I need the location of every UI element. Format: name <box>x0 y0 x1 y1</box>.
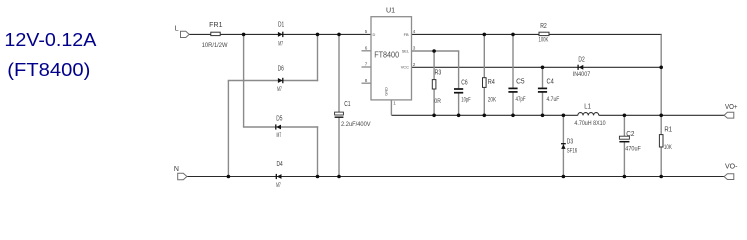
svg-text:R2: R2 <box>540 23 547 30</box>
svg-text:U1: U1 <box>386 5 395 14</box>
svg-text:10pF: 10pF <box>461 97 470 104</box>
svg-text:N: N <box>174 166 179 173</box>
junction VCC at right column <box>659 66 663 70</box>
junction GND rail at C4 <box>541 114 545 118</box>
pin 6 stub <box>362 50 372 52</box>
junction top rail at C1 <box>337 33 341 37</box>
junction output rail at R1 <box>659 114 663 118</box>
junction bottom rail at D5 right <box>316 175 320 179</box>
svg-text:M7: M7 <box>278 40 283 47</box>
wire bottom rail N-to-VO- <box>187 176 724 178</box>
svg-text:R3: R3 <box>435 69 442 76</box>
junction top rail at J1 <box>242 33 246 37</box>
svg-text:4.70uH 8X10: 4.70uH 8X10 <box>574 120 605 127</box>
terminal VO- <box>724 174 734 180</box>
diode D3 <box>561 144 565 149</box>
diode D5 <box>276 125 281 130</box>
wire vertical D6-right-to-top <box>317 34 319 81</box>
wire output/GND rail <box>391 114 577 116</box>
svg-text:C1: C1 <box>344 101 350 108</box>
resistor R2 <box>539 32 549 35</box>
IC U1 FT8400 <box>371 17 412 100</box>
diode D6 <box>278 78 283 83</box>
inductor L1 <box>578 113 599 116</box>
svg-text:(FT8400): (FT8400) <box>7 60 90 80</box>
svg-text:M7: M7 <box>277 86 282 93</box>
wire GND pin drop <box>390 100 392 115</box>
wire SEL row <box>412 50 460 52</box>
svg-text:R4: R4 <box>488 79 495 86</box>
svg-text:C2: C2 <box>626 131 634 138</box>
capacitor C4 <box>538 87 547 89</box>
svg-text:4: 4 <box>413 29 416 34</box>
wire vertical R2/R1 right column <box>660 34 662 134</box>
junction SEL at R3 <box>432 49 436 53</box>
svg-text:10K: 10K <box>664 144 672 151</box>
wire top rail L-to-IC <box>189 33 371 35</box>
svg-text:C6: C6 <box>461 79 467 86</box>
svg-text:SF16: SF16 <box>567 147 578 154</box>
svg-text:2.2uF/400V: 2.2uF/400V <box>341 121 371 128</box>
wire vertical C5 branch <box>512 34 514 87</box>
resistor R3 <box>432 80 436 89</box>
wire vertical J1-to-D5row <box>243 34 245 127</box>
junction bottom rail at C1 <box>337 175 341 179</box>
junction VCC at C4 <box>541 66 545 70</box>
junction GND rail at R3 <box>432 114 436 118</box>
capacitor C2 <box>619 136 629 139</box>
wire VCC/D2 rail <box>412 66 662 68</box>
svg-text:100K: 100K <box>539 37 549 44</box>
svg-text:D1: D1 <box>278 21 284 28</box>
wire vertical D5-right-to-bottom <box>317 126 319 176</box>
svg-text:47pF: 47pF <box>516 96 526 103</box>
svg-text:FT8400: FT8400 <box>374 50 399 59</box>
svg-text:2: 2 <box>413 62 416 67</box>
capacitor C5 <box>508 87 517 89</box>
svg-text:VO-: VO- <box>725 163 738 170</box>
svg-text:GND: GND <box>383 87 388 96</box>
svg-text:5: 5 <box>365 29 368 34</box>
capacitor C1 <box>335 112 344 115</box>
wire vertical C6 branch <box>458 51 460 88</box>
junction output rail at C2 <box>623 114 627 118</box>
svg-text:1: 1 <box>393 100 396 105</box>
wire vertical D3 branch <box>562 115 564 176</box>
svg-text:10R/1/2W: 10R/1/2W <box>202 42 228 49</box>
junction FB rail at R4 <box>483 33 487 37</box>
junction GND rail at R4 <box>483 114 487 118</box>
svg-text:C4: C4 <box>547 79 554 86</box>
wire vertical C4 branch <box>542 67 544 87</box>
svg-text:D4: D4 <box>277 161 283 168</box>
terminal L <box>181 31 190 37</box>
svg-text:D5: D5 <box>276 116 282 123</box>
svg-text:12V-0.12A: 12V-0.12A <box>4 30 96 50</box>
svg-text:IN4007: IN4007 <box>573 71 591 78</box>
svg-text:20K: 20K <box>488 97 497 104</box>
svg-text:VO+: VO+ <box>725 104 738 111</box>
svg-text:VCC: VCC <box>401 65 409 70</box>
svg-text:FB: FB <box>404 32 409 37</box>
svg-text:D2: D2 <box>578 56 584 63</box>
svg-text:6: 6 <box>365 45 368 50</box>
diode D1 <box>278 32 283 37</box>
svg-text:SEL: SEL <box>402 48 410 53</box>
pin 7 stub <box>362 66 372 68</box>
terminal VO+ <box>724 112 734 118</box>
svg-text:7: 7 <box>365 62 368 67</box>
junction top rail at D6 right <box>316 33 320 37</box>
wire vertical D6-left-to-bottom <box>227 81 229 177</box>
resistor R4 <box>483 78 487 88</box>
svg-text:C5: C5 <box>516 79 525 86</box>
svg-text:8: 8 <box>365 78 368 83</box>
junction GND rail at D3 <box>562 114 566 118</box>
diode D4 <box>277 174 282 179</box>
wire vertical R4 branch <box>483 34 485 77</box>
svg-text:3: 3 <box>413 46 416 51</box>
svg-text:M7: M7 <box>277 132 282 139</box>
svg-text:R1: R1 <box>664 127 672 134</box>
svg-text:M7: M7 <box>276 182 281 189</box>
wire vertical C1 branch <box>338 34 340 112</box>
wire D5 row <box>243 126 318 128</box>
junction bottom rail at D6 left <box>227 175 231 179</box>
svg-text:4.7uF: 4.7uF <box>547 96 560 103</box>
junction bottom rail at C2 <box>623 175 627 179</box>
junction bottom rail at R1 <box>659 175 663 179</box>
svg-text:L: L <box>175 25 179 32</box>
pin 8 stub <box>362 82 372 84</box>
wire vertical R3 branch <box>433 51 435 80</box>
svg-text:D: D <box>373 32 376 37</box>
resistor FR1 <box>211 32 220 35</box>
wire FB rail IC-to-right <box>412 33 662 35</box>
svg-text:0R: 0R <box>434 98 441 105</box>
diode D2 <box>579 65 584 70</box>
svg-text:470uF: 470uF <box>625 145 641 152</box>
junction bottom rail at D3 <box>562 175 566 179</box>
svg-text:D6: D6 <box>278 65 284 72</box>
terminal N <box>178 173 187 179</box>
junction FB rail at C5 <box>511 33 515 37</box>
capacitor C6 <box>454 88 463 90</box>
svg-text:L1: L1 <box>584 103 591 110</box>
wire D6 row <box>228 80 319 82</box>
wire vertical C2 branch <box>623 115 625 136</box>
svg-text:FR1: FR1 <box>209 22 222 29</box>
junction GND rail at C6 <box>457 114 461 118</box>
junction GND rail at C5 <box>511 114 515 118</box>
resistor R1 <box>659 135 663 147</box>
svg-text:D3: D3 <box>567 138 573 145</box>
